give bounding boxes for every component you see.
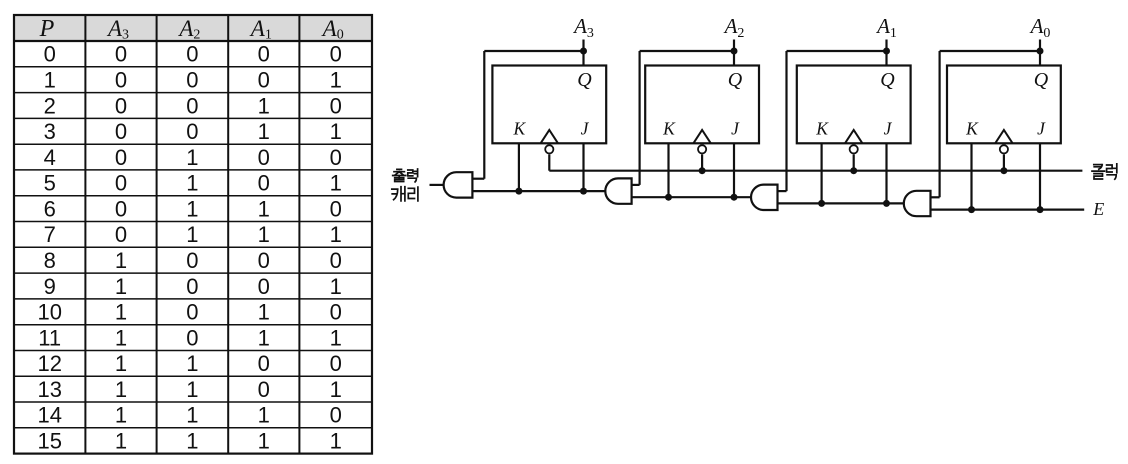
svg-text:0: 0	[330, 93, 342, 118]
svg-text:1: 1	[115, 300, 127, 325]
svg-text:0: 0	[258, 68, 270, 93]
svg-text:0: 0	[115, 119, 127, 144]
svg-text:0: 0	[115, 171, 127, 196]
svg-text:15: 15	[37, 429, 61, 454]
svg-text:1: 1	[186, 145, 198, 170]
svg-text:J: J	[731, 119, 740, 139]
svg-text:0: 0	[115, 68, 127, 93]
svg-text:K: K	[662, 119, 676, 139]
svg-text:1: 1	[330, 377, 342, 402]
svg-text:0: 0	[330, 248, 342, 273]
svg-text:0: 0	[115, 196, 127, 221]
svg-text:1: 1	[330, 119, 342, 144]
svg-text:1: 1	[186, 429, 198, 454]
svg-text:0: 0	[258, 351, 270, 376]
svg-text:1: 1	[258, 300, 270, 325]
svg-text:1: 1	[115, 274, 127, 299]
svg-text:14: 14	[37, 403, 61, 428]
svg-text:1: 1	[258, 196, 270, 221]
svg-text:13: 13	[37, 377, 61, 402]
svg-text:1: 1	[115, 377, 127, 402]
svg-text:1: 1	[186, 196, 198, 221]
svg-text:1: 1	[330, 171, 342, 196]
svg-text:0: 0	[115, 93, 127, 118]
svg-text:Q: Q	[728, 69, 743, 91]
svg-text:0: 0	[115, 222, 127, 247]
svg-text:0: 0	[258, 42, 270, 67]
svg-text:E: E	[1092, 199, 1104, 219]
svg-text:P: P	[39, 16, 55, 42]
svg-text:1: 1	[44, 68, 56, 93]
svg-text:0: 0	[258, 171, 270, 196]
svg-text:1: 1	[115, 429, 127, 454]
svg-text:1: 1	[258, 429, 270, 454]
svg-text:J: J	[884, 119, 893, 139]
svg-text:1: 1	[186, 377, 198, 402]
svg-text:9: 9	[44, 274, 56, 299]
svg-text:3: 3	[44, 119, 56, 144]
svg-text:10: 10	[37, 300, 61, 325]
svg-text:11: 11	[38, 325, 61, 350]
svg-text:0: 0	[258, 248, 270, 273]
svg-text:0: 0	[186, 248, 198, 273]
svg-text:12: 12	[37, 351, 61, 376]
svg-text:0: 0	[258, 274, 270, 299]
svg-text:1: 1	[186, 222, 198, 247]
svg-text:1: 1	[330, 429, 342, 454]
svg-text:1: 1	[115, 248, 127, 273]
svg-text:0: 0	[330, 42, 342, 67]
svg-text:1: 1	[186, 171, 198, 196]
svg-text:0: 0	[330, 300, 342, 325]
svg-text:8: 8	[44, 248, 56, 273]
svg-text:K: K	[815, 119, 829, 139]
svg-text:0: 0	[330, 196, 342, 221]
svg-text:K: K	[513, 119, 527, 139]
svg-text:J: J	[581, 119, 590, 139]
svg-text:1: 1	[258, 325, 270, 350]
svg-text:1: 1	[186, 351, 198, 376]
svg-text:6: 6	[44, 196, 56, 221]
svg-text:1: 1	[258, 93, 270, 118]
svg-text:Q: Q	[880, 69, 895, 91]
svg-text:1: 1	[258, 403, 270, 428]
svg-text:1: 1	[258, 222, 270, 247]
svg-text:0: 0	[258, 145, 270, 170]
svg-text:1: 1	[330, 274, 342, 299]
svg-text:J: J	[1037, 119, 1046, 139]
svg-text:0: 0	[330, 145, 342, 170]
svg-text:4: 4	[44, 145, 56, 170]
svg-text:1: 1	[330, 325, 342, 350]
svg-text:1: 1	[258, 119, 270, 144]
svg-text:0: 0	[186, 119, 198, 144]
svg-text:Q: Q	[577, 69, 592, 91]
svg-text:0: 0	[115, 42, 127, 67]
svg-text:0: 0	[330, 403, 342, 428]
svg-text:0: 0	[44, 42, 56, 67]
svg-text:0: 0	[186, 274, 198, 299]
svg-text:0: 0	[186, 68, 198, 93]
svg-text:0: 0	[186, 42, 198, 67]
svg-text:1: 1	[115, 325, 127, 350]
svg-text:1: 1	[115, 351, 127, 376]
svg-text:0: 0	[186, 300, 198, 325]
svg-text:7: 7	[44, 222, 56, 247]
svg-text:0: 0	[330, 351, 342, 376]
svg-text:2: 2	[44, 93, 56, 118]
svg-text:1: 1	[330, 222, 342, 247]
svg-text:1: 1	[330, 68, 342, 93]
svg-text:0: 0	[186, 325, 198, 350]
svg-text:Q: Q	[1034, 69, 1049, 91]
svg-text:K: K	[965, 119, 979, 139]
svg-text:1: 1	[186, 403, 198, 428]
svg-text:0: 0	[186, 93, 198, 118]
svg-text:0: 0	[115, 145, 127, 170]
svg-text:5: 5	[44, 171, 56, 196]
svg-text:1: 1	[115, 403, 127, 428]
svg-text:0: 0	[258, 377, 270, 402]
